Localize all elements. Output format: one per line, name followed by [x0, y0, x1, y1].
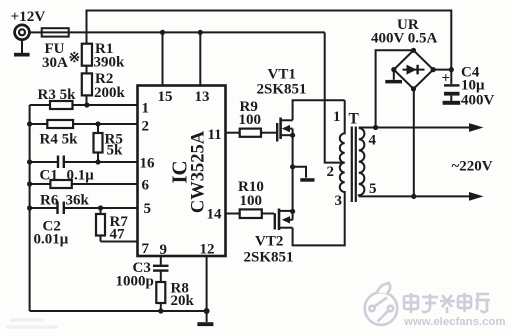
- transistor Q2 VT2 2SK851: [275, 209, 293, 231]
- wire pin-12 drop: [206, 256, 208, 311]
- svg-text:390k: 390k: [94, 55, 126, 71]
- svg-text:20k: 20k: [171, 293, 195, 309]
- svg-text:2SK851: 2SK851: [257, 82, 307, 98]
- transistor Q1 VT1 2SK851: [277, 118, 292, 142]
- wire pin-16 line: [30, 161, 138, 163]
- svg-text:www.elecfans.com: www.elecfans.com: [403, 316, 506, 328]
- wire terminal to fuse: [30, 31, 42, 33]
- wire pin-9 drop: [160, 256, 162, 265]
- label C2 0.01μ: [34, 219, 69, 248]
- svg-text:0.01μ: 0.01μ: [34, 232, 69, 248]
- pin labels: [140, 89, 223, 258]
- wire pin-1 line: [30, 104, 138, 106]
- node rail/pin2: [27, 121, 32, 126]
- ground (bottom): [197, 311, 213, 326]
- label C4 10μ 400V: [461, 65, 495, 109]
- watermark logo: [365, 283, 398, 325]
- wire R2 to pin1 node: [86, 95, 88, 105]
- wire pin-4 output line: [359, 123, 484, 132]
- svg-text:10μ: 10μ: [461, 78, 485, 94]
- wire R1-R2: [86, 66, 88, 74]
- label UR 400V 0.5A: [371, 17, 438, 47]
- svg-text:VT1: VT1: [268, 67, 296, 83]
- node rail/pin6: [27, 181, 32, 186]
- capacitor C4: [443, 70, 461, 105]
- node VT1 source tie: [290, 133, 295, 138]
- svg-text:100: 100: [240, 193, 263, 209]
- label R1 390k: [94, 41, 126, 71]
- node VT2 drain tie: [290, 209, 295, 214]
- svg-text:16: 16: [140, 156, 156, 172]
- capacitor C1: [58, 156, 64, 169]
- svg-text:4: 4: [369, 133, 377, 149]
- wire VT1 source down to VT2: [292, 135, 294, 211]
- svg-text:15: 15: [158, 89, 173, 105]
- node R5 top: [95, 121, 100, 126]
- svg-text:47: 47: [110, 227, 126, 243]
- label FU 30A: [42, 41, 80, 71]
- wire pin-14 line: [226, 213, 275, 215]
- wire pin-7 line: [101, 241, 138, 243]
- node pin12/ground: [204, 308, 210, 314]
- wire pin-13 riser: [199, 32, 201, 85]
- node bridge feed on pin-5 line: [411, 194, 416, 199]
- svg-text:100: 100: [239, 112, 262, 128]
- transformer core: [352, 127, 356, 203]
- svg-text:2: 2: [327, 164, 335, 180]
- wire pin-2 line: [30, 123, 138, 125]
- svg-text:400V 0.5A: 400V 0.5A: [371, 31, 438, 47]
- svg-text:~220V: ~220V: [452, 159, 493, 175]
- ground (bridge left): [385, 70, 402, 84]
- svg-text:14: 14: [207, 207, 223, 223]
- watermark chinese text 电子发烧友: [404, 293, 490, 313]
- svg-text:5: 5: [369, 181, 377, 197]
- svg-text:+12V: +12V: [11, 8, 46, 25]
- svg-text:2SK851: 2SK851: [244, 250, 294, 266]
- svg-text:400V: 400V: [461, 93, 495, 109]
- node R2/pin1 junction: [84, 102, 89, 107]
- node C4 tap: [449, 67, 454, 72]
- svg-text:11: 11: [208, 127, 222, 143]
- node C3/R8 bottom: [158, 308, 163, 313]
- bridge corner nodes: [391, 48, 436, 92]
- svg-text:VT2: VT2: [255, 234, 283, 250]
- resistor R3: [50, 101, 73, 109]
- resistor R9: [240, 129, 261, 137]
- label R5 5k: [105, 132, 124, 159]
- wire C3 to R8: [160, 271, 162, 282]
- wire pin-11 line: [226, 132, 277, 134]
- wire VT1 drain to transformer pin1: [293, 100, 345, 120]
- wire pin-6 line: [30, 183, 138, 185]
- wire bridge right to C4: [433, 69, 451, 71]
- svg-text:12: 12: [200, 242, 215, 258]
- svg-text:30A: 30A: [42, 55, 68, 71]
- wire pin-15 riser: [162, 32, 164, 85]
- svg-text:200k: 200k: [94, 85, 126, 101]
- svg-text:2: 2: [142, 119, 150, 135]
- bridge rectifier UR: [394, 50, 433, 89]
- label R7 47: [110, 214, 129, 243]
- resistor R2: [82, 73, 92, 95]
- node rail/pin16: [27, 159, 32, 164]
- transformer labels: [327, 109, 377, 209]
- resistor R4: [47, 120, 73, 128]
- capacitor C2: [58, 202, 64, 215]
- terminal +12V: [15, 25, 30, 40]
- ground (MOSFET sources): [293, 167, 315, 182]
- svg-text:R6: R6: [40, 193, 59, 209]
- wire left rail: [29, 105, 31, 311]
- node rail/pin5: [27, 205, 32, 210]
- fuse FU 30A: [42, 28, 69, 36]
- scan smudge bottom-left: [6, 319, 58, 329]
- ground bar under terminal: [14, 41, 30, 57]
- label R6 36k: [40, 193, 90, 209]
- svg-text:5: 5: [144, 201, 152, 217]
- capacitor C3: [153, 266, 169, 271]
- svg-text:T: T: [349, 111, 360, 128]
- wire bridge top feed: [376, 50, 414, 127]
- node bridge feed on pin-4 line: [373, 125, 378, 130]
- svg-text:3: 3: [335, 193, 343, 209]
- resistor R6: [50, 180, 71, 188]
- svg-text:36k: 36k: [66, 193, 90, 209]
- label R10 100: [238, 179, 264, 209]
- svg-text:6: 6: [142, 178, 150, 194]
- label C3 1000p: [116, 260, 154, 290]
- wire VT2 drain to transformer pin3: [293, 192, 345, 245]
- node R5 bottom: [95, 159, 100, 164]
- node pin13 tap: [198, 30, 203, 35]
- svg-text:13: 13: [195, 89, 210, 105]
- label C1 0.1μ: [40, 168, 95, 184]
- op-amp U1 CW3525A box: [138, 86, 226, 257]
- node ground tap: [290, 164, 295, 169]
- svg-text:7: 7: [142, 241, 150, 257]
- resistor R8: [156, 282, 165, 311]
- label VT2 2SK851: [244, 234, 294, 266]
- resistor R10: [240, 209, 262, 218]
- label R2 200k: [94, 71, 126, 101]
- transformer T primary winding: [340, 100, 345, 192]
- svg-text:※: ※: [69, 51, 81, 66]
- wire +12V bus (after fuse): [69, 31, 325, 33]
- svg-text:R3 5k: R3 5k: [38, 87, 77, 103]
- node R7 top: [98, 205, 103, 210]
- transformer T secondary winding: [359, 128, 365, 196]
- node pin15 tap: [160, 30, 165, 35]
- svg-text:+: +: [442, 71, 451, 87]
- label R8 20k: [171, 281, 195, 310]
- svg-text:1: 1: [333, 109, 341, 125]
- svg-text:5k: 5k: [107, 143, 124, 159]
- resistor R5: [94, 124, 103, 162]
- resistor R1: [82, 44, 92, 66]
- wire pin-5 output line: [359, 192, 484, 201]
- svg-text:CW3525A: CW3525A: [189, 130, 209, 213]
- wire bottom rail: [30, 310, 207, 312]
- wire center tap feed: [325, 32, 345, 162]
- svg-text:1: 1: [142, 101, 150, 117]
- label R9 100: [239, 99, 262, 128]
- svg-text:R4 5k: R4 5k: [40, 132, 79, 148]
- svg-text:1000p: 1000p: [116, 274, 154, 290]
- wire top rail 400V feedback: [87, 11, 452, 70]
- wire pin-5 line: [30, 207, 138, 209]
- resistor R7: [96, 208, 105, 242]
- svg-text:9: 9: [160, 242, 168, 258]
- label VT1 2SK851: [257, 67, 307, 98]
- wire bridge bottom feed: [413, 89, 415, 196]
